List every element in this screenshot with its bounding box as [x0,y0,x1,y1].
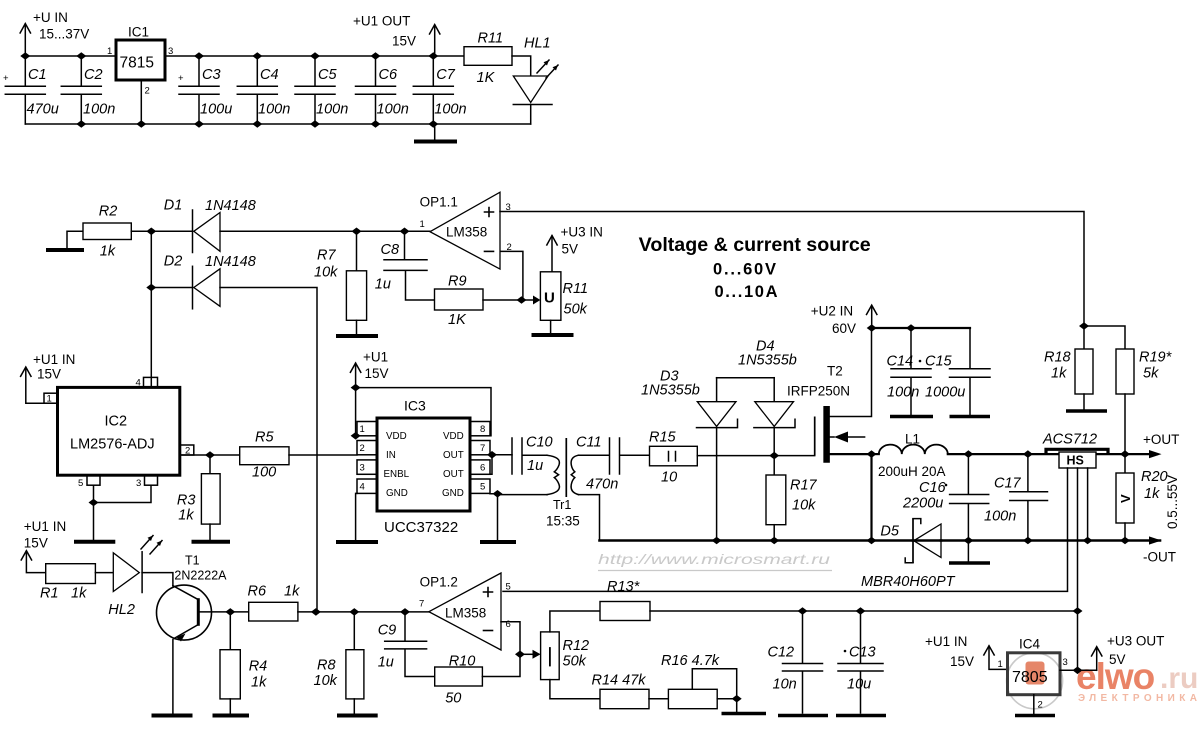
wire pin2 to R5 [180,454,240,456]
Tr1 labels [546,498,580,529]
svg-text:1k: 1k [71,586,87,602]
svg-text:1N5355b: 1N5355b [641,383,700,399]
svg-text:ENBL: ENBL [384,469,410,480]
svg-text:+U1 IN: +U1 IN [33,352,75,367]
svg-text:R20: R20 [1141,469,1168,485]
resistor R8 10k [314,612,378,716]
wire ACS712 gnd pin [1087,468,1089,541]
svg-text:50k: 50k [564,302,588,318]
svg-text:Voltage & current source: Voltage & current source [639,234,871,256]
node dots OP1.2 area [400,608,410,616]
wire R5 to IC3 pin2 [289,454,357,456]
wire -OUT rail left part [600,539,914,542]
svg-text:C14: C14 [887,354,914,370]
node dots top rail [20,52,30,60]
svg-text:6: 6 [506,619,511,630]
pin 1 IC2 [44,393,58,404]
elwo watermark logo [1007,653,1063,709]
transformer Tr1 primary [547,455,559,494]
svg-text:R13*: R13* [607,579,641,595]
svg-text:4: 4 [360,482,365,493]
svg-text:+U3 OUT: +U3 OUT [1107,634,1164,649]
op-amp OP1.1 LM358 [420,192,512,269]
svg-text:IC2: IC2 [105,414,128,430]
svg-text:3: 3 [1063,657,1068,668]
svg-text:ЭЛЕКТРОНИКА: ЭЛЕКТРОНИКА [1078,693,1200,704]
wire +U1 node to pin1 [356,388,357,436]
net +U1 IN label IC4 [925,634,974,669]
capacitor C12 10n [768,611,829,716]
svg-text:V: V [1118,494,1133,503]
svg-text:1k: 1k [178,508,194,524]
svg-text:R10: R10 [449,654,476,670]
resistor R19* 5k [1084,326,1173,454]
ground at R16 node [722,699,767,714]
svg-text:+: + [3,73,9,84]
svg-text:4: 4 [136,378,141,389]
zener D3 1N5355b [641,369,738,541]
svg-text:10: 10 [661,470,677,486]
capacitor C6 100n [356,56,409,124]
svg-text:0.5...55V: 0.5...55V [1165,475,1180,529]
LED HL1 [513,36,558,125]
svg-text:5: 5 [480,482,485,493]
capacitor C17 100n [984,454,1048,540]
svg-text:1000u: 1000u [925,385,965,401]
svg-text:15V: 15V [37,367,61,382]
wire R1 to HL2 [95,572,113,574]
svg-text:1u: 1u [375,277,391,293]
svg-text:L1: L1 [905,432,920,447]
wire D2 to OP1.2 output column [220,288,317,612]
title text [639,234,871,301]
wire R6 to OP1.2 [298,611,430,613]
potentiometer R11 50k [540,272,588,321]
pin 2 IC2 [180,445,194,457]
capacitor C16 2200u [902,454,989,540]
wire zener bridge [717,377,775,379]
wire OP1.2 -input drop [501,622,520,655]
svg-text:200uH 20A: 200uH 20A [878,464,946,479]
capacitor C9 1u [378,612,435,677]
wire HL2 to T1 collector [142,573,173,586]
svg-text:1N4148: 1N4148 [205,254,256,270]
pin 4 IC2 [136,288,158,389]
svg-text:T1: T1 [185,554,200,568]
svg-text:7: 7 [480,443,485,454]
svg-text:1k: 1k [284,584,300,600]
capacitor C11 470n [576,435,650,493]
svg-text:15V: 15V [365,366,389,381]
svg-text:GND: GND [442,488,464,499]
svg-text:15...37V: 15...37V [39,27,89,42]
svg-text:C12: C12 [768,645,795,661]
net +U1 15V label IC3 [363,350,389,382]
power arrow +U1 IN IC4 [984,646,1008,670]
wire T1 base to R6 [200,611,249,613]
wiper arrow into R11 pot [522,296,541,305]
svg-text:IC3: IC3 [404,398,426,414]
svg-text:C5: C5 [318,67,337,83]
diode D5 MBR40H60PT [861,518,956,590]
svg-text:15:35: 15:35 [546,514,580,529]
ground at C16 node [949,541,990,564]
capacitor C15 1000u [925,328,990,417]
resistor R3 1k [177,455,230,542]
pin 2 IC1 [141,80,149,124]
svg-text:C11: C11 [576,435,602,451]
svg-text:R16 4.7k: R16 4.7k [661,653,720,669]
node dots IC3 [351,384,361,392]
IC3 UCC37322 [377,398,470,537]
svg-text:7: 7 [419,599,424,610]
IC4 7805 regulator [1008,637,1061,695]
svg-text:C4: C4 [260,67,279,83]
svg-text:2: 2 [507,242,512,253]
svg-text:2: 2 [360,443,365,454]
svg-text:T2: T2 [827,364,843,379]
svg-text:1: 1 [107,46,112,57]
svg-text:100: 100 [252,465,276,481]
svg-text:50k: 50k [563,654,587,670]
net +U2 IN label [811,304,856,337]
IC1 7815 regulator [116,25,165,81]
wire pin2 drop OP1.1 [500,251,523,300]
svg-text:15V: 15V [392,34,416,49]
+OUT terminal [1125,432,1179,458]
svg-text:R6: R6 [248,584,267,600]
wire R9 to wiper node [483,299,522,301]
svg-text:R9: R9 [448,274,467,290]
power arrow +U1 IC3 [350,363,360,388]
svg-text:1k: 1k [1051,366,1067,382]
resistor R17 10k [766,456,818,541]
svg-text:3: 3 [168,46,173,57]
svg-text:IC4: IC4 [1019,637,1041,652]
svg-text:D5: D5 [880,524,899,540]
wire D1 to OP1.1 output [220,230,430,232]
svg-text:+OUT: +OUT [1143,432,1179,447]
power arrow +U1 OUT [430,25,440,57]
svg-text:OP1.2: OP1.2 [420,575,458,590]
svg-text:1N4148: 1N4148 [205,198,256,214]
wire node column to D2 [150,231,152,287]
power arrow +U3 OUT [1092,634,1165,671]
svg-text:100u: 100u [200,102,232,118]
svg-text:10k: 10k [792,498,816,514]
svg-text:R2: R2 [99,204,118,220]
svg-text:C6: C6 [379,67,398,83]
svg-text:VDD: VDD [386,431,407,442]
svg-text:+U IN: +U IN [33,10,68,25]
svg-text:5: 5 [506,582,511,593]
svg-text:1: 1 [998,659,1003,670]
power arrow +U1 IN R1 [21,551,46,573]
svg-text:C3: C3 [202,67,221,83]
svg-text:-OUT: -OUT [1143,550,1176,565]
svg-text:C7: C7 [436,67,455,83]
svg-text:1K: 1K [477,70,496,86]
svg-text:1: 1 [420,219,425,230]
-OUT terminal [1143,536,1176,564]
pin 5 IC3 to ground [480,494,516,542]
capacitor C14 100n [887,328,934,417]
LED HL2 [108,536,162,619]
svg-text:+U1: +U1 [363,350,388,365]
wire +U1 node to pin8 [356,388,491,436]
svg-text:2: 2 [145,86,150,97]
svg-text:1: 1 [47,394,52,405]
transformer Tr1 core [565,438,567,497]
svg-text:OP1.1: OP1.1 [420,195,458,210]
capacitor C4 100n [237,56,290,124]
pin 6 IC3 riser [490,455,492,475]
svg-text:1K: 1K [448,312,467,328]
svg-text:2N2222A: 2N2222A [174,569,227,583]
wire R2 to D1 [131,230,192,232]
svg-text:Tr1: Tr1 [553,498,571,512]
svg-text:100n: 100n [258,102,290,118]
IC3 pin tabs left [357,422,377,494]
resistor R7 10k [314,231,378,336]
node dots output area [1079,322,1089,330]
svg-text:1k: 1k [100,244,116,260]
svg-text:GND: GND [386,488,408,499]
ACS712 current sensor [1042,432,1108,469]
pin 2 IC4 to ground [1015,695,1055,716]
capacitor C5 100n [295,56,348,124]
power arrow +U1 IN IC2 [21,367,58,403]
svg-text:LM2576-ADJ: LM2576-ADJ [70,437,155,453]
svg-text:HL1: HL1 [524,36,551,52]
resistor R18 1k [1044,326,1107,411]
resistor R4 1k [213,612,268,716]
svg-text:R12: R12 [563,638,590,654]
svg-text:+U3 IN: +U3 IN [561,225,603,240]
wire top rail left [25,55,116,57]
svg-text:100n: 100n [377,102,409,118]
pin 7 IC3 node [490,454,512,456]
node dots IC2 area [205,451,215,459]
transformer Tr1 secondary [571,455,578,494]
resistor R5 100 [240,430,289,481]
power arrow +U IN [20,24,30,57]
node dots T2 area [867,324,877,332]
trimmer R16 4.7k [661,653,737,709]
pins 5,3 IC2 to ground [74,475,158,542]
transistor T2 IRFP250N mosfet [787,328,872,541]
svg-text:R15: R15 [649,430,677,446]
svg-text:1k: 1k [251,675,267,691]
wire R10 to wiper node [482,654,520,676]
resistor R11 1K [464,31,512,87]
svg-text:R8: R8 [317,658,336,674]
svg-text:R4: R4 [249,659,268,675]
svg-text:C15: C15 [925,354,953,370]
wire R14 to R16 [649,698,668,700]
capacitor C2 100n [61,56,115,124]
svg-text:C8: C8 [381,242,400,258]
ground at R2 [46,231,84,250]
svg-text:+: + [178,73,184,84]
svg-text:C2: C2 [84,67,103,83]
svg-text:C10: C10 [526,435,553,451]
wire 60V rail [872,327,970,329]
svg-text:15V: 15V [24,536,48,551]
svg-text:7805: 7805 [1012,669,1048,686]
svg-text:+U1 OUT: +U1 OUT [353,14,410,29]
node dots bottom rail [76,120,86,128]
net +U1 OUT label [353,14,416,49]
svg-text:5V: 5V [1109,652,1126,667]
svg-text:R7: R7 [317,248,336,264]
svg-text:3: 3 [360,463,365,474]
capacitor C10 1u [512,435,553,475]
svg-text:D1: D1 [164,198,183,214]
svg-text:U: U [544,290,555,307]
capacitor C1 470u [3,56,59,124]
svg-text:100n: 100n [316,102,348,118]
wire R11 to LED [512,56,531,76]
svg-text:HS: HS [1067,454,1084,468]
resistor R14 47k [592,673,650,709]
wire R15 to T2 gate [697,455,814,457]
wire OP1.1 +input to right column [500,212,1084,327]
svg-text:470n: 470n [586,477,618,493]
wire ACS712 out pin to OP1.2 [503,468,1068,591]
svg-text:R1: R1 [40,586,59,602]
svg-text:5k: 5k [1143,366,1159,382]
resistor R6 1k [248,584,301,622]
svg-text:60V: 60V [832,321,856,336]
svg-text:10n: 10n [773,677,797,693]
net +U IN label [33,10,89,42]
node dots control section [146,228,156,236]
svg-text:1u: 1u [527,458,543,474]
resistor R15 10 [649,430,697,486]
svg-text:1: 1 [360,424,365,435]
svg-text:10u: 10u [847,677,871,693]
svg-text:470u: 470u [27,102,59,118]
svg-text:+U1 IN: +U1 IN [925,634,967,649]
svg-text:R14 47k: R14 47k [592,673,647,689]
ground under C7 [414,124,457,142]
wire R13 to ACS712 vcc [650,610,1078,612]
svg-text:C17: C17 [994,476,1022,492]
wire top rail right [165,55,464,57]
diode D1 1N4148 [164,198,256,253]
svg-text:R18: R18 [1044,350,1071,366]
svg-text:C1: C1 [28,67,47,83]
svg-text:+U1 IN: +U1 IN [24,519,66,534]
svg-text:R11: R11 [478,31,504,47]
resistor R13* [600,579,650,621]
svg-text:C13: C13 [849,645,876,661]
svg-text:100n: 100n [434,102,466,118]
svg-text:http://www.microsmart.ru: http://www.microsmart.ru [598,551,830,567]
capacitor C13 10u [836,611,886,716]
svg-text:C16: C16 [919,480,947,496]
svg-text:+U2 IN: +U2 IN [811,304,853,319]
wire -OUT rail right part [941,539,1160,542]
svg-text:15V: 15V [950,654,974,669]
svg-text:3: 3 [136,478,141,489]
IC3 pin tabs right [470,422,490,494]
svg-text:10k: 10k [314,673,338,689]
svg-text:.ru: .ru [1160,662,1198,695]
resistor R1 1k [40,564,95,602]
diode D2 1N4148 [164,254,256,309]
svg-text:50: 50 [445,691,461,707]
node dot at IC4 output junction [1073,667,1083,675]
svg-text:HL2: HL2 [108,602,135,618]
resistor R2 1k [83,204,131,260]
svg-text:1N5355b: 1N5355b [738,353,797,369]
svg-text:IC1: IC1 [128,25,149,40]
wire R12 top to R13 line [550,611,600,632]
IC2 LM2576-ADJ [58,387,180,475]
node dots -OUT rail [712,537,722,545]
svg-text:R3: R3 [177,493,196,509]
wire primary bottom to ground column [498,494,548,496]
site watermark [598,551,832,571]
potentiometer R12 50k [541,632,590,680]
wiper arrow into R12 pot [520,650,541,659]
svg-text:6: 6 [480,463,485,474]
ground at T1 emitter [152,714,193,718]
svg-text:OUT: OUT [443,469,464,480]
IC3 pin names [384,431,464,499]
ground at R11 pot [532,320,574,335]
wire node to D2 anode [151,287,192,289]
zener D4 1N5355b [738,339,797,456]
logo text elwo.ru [1076,656,1200,704]
svg-text:10k: 10k [314,265,338,281]
svg-text:OUT: OUT [443,450,464,461]
svg-text:IRFP250N: IRFP250N [787,384,850,399]
svg-text:7815: 7815 [120,55,154,72]
transistor T1 2N2222A [157,554,228,714]
svg-text:100n: 100n [83,102,115,118]
svg-text:LM358: LM358 [446,225,487,240]
svg-text:100n: 100n [887,385,919,401]
capacitor C3 100u [178,56,232,124]
capacitor C8 1u [375,231,435,300]
svg-text:R19*: R19* [1139,350,1173,366]
svg-text:2: 2 [1038,700,1043,711]
svg-text:5: 5 [78,478,83,489]
svg-text:VDD: VDD [443,431,464,442]
resistor R20 1k voltmeter pot [1116,454,1168,540]
svg-text:IN: IN [386,450,396,461]
wire R12 bottom to R14 [550,680,600,699]
svg-text:1u: 1u [378,655,394,671]
svg-text:LM358: LM358 [445,606,486,621]
wire bottom rail [25,123,530,125]
capacitor C7 100n [413,56,466,124]
svg-text:UCC37322: UCC37322 [384,519,458,536]
wire ACS712 vcc pin [1077,468,1079,670]
svg-text:MBR40H60PT: MBR40H60PT [861,574,956,590]
pin 4 IC3 to ground [336,493,378,542]
svg-text:1k: 1k [1144,486,1160,502]
svg-text:C9: C9 [378,623,397,639]
node dots T1 area [225,608,235,616]
power arrow +U2 IN [867,305,877,328]
svg-text:8: 8 [480,424,485,435]
op-amp OP1.2 LM358 [419,573,511,650]
svg-text:R5: R5 [255,430,274,446]
